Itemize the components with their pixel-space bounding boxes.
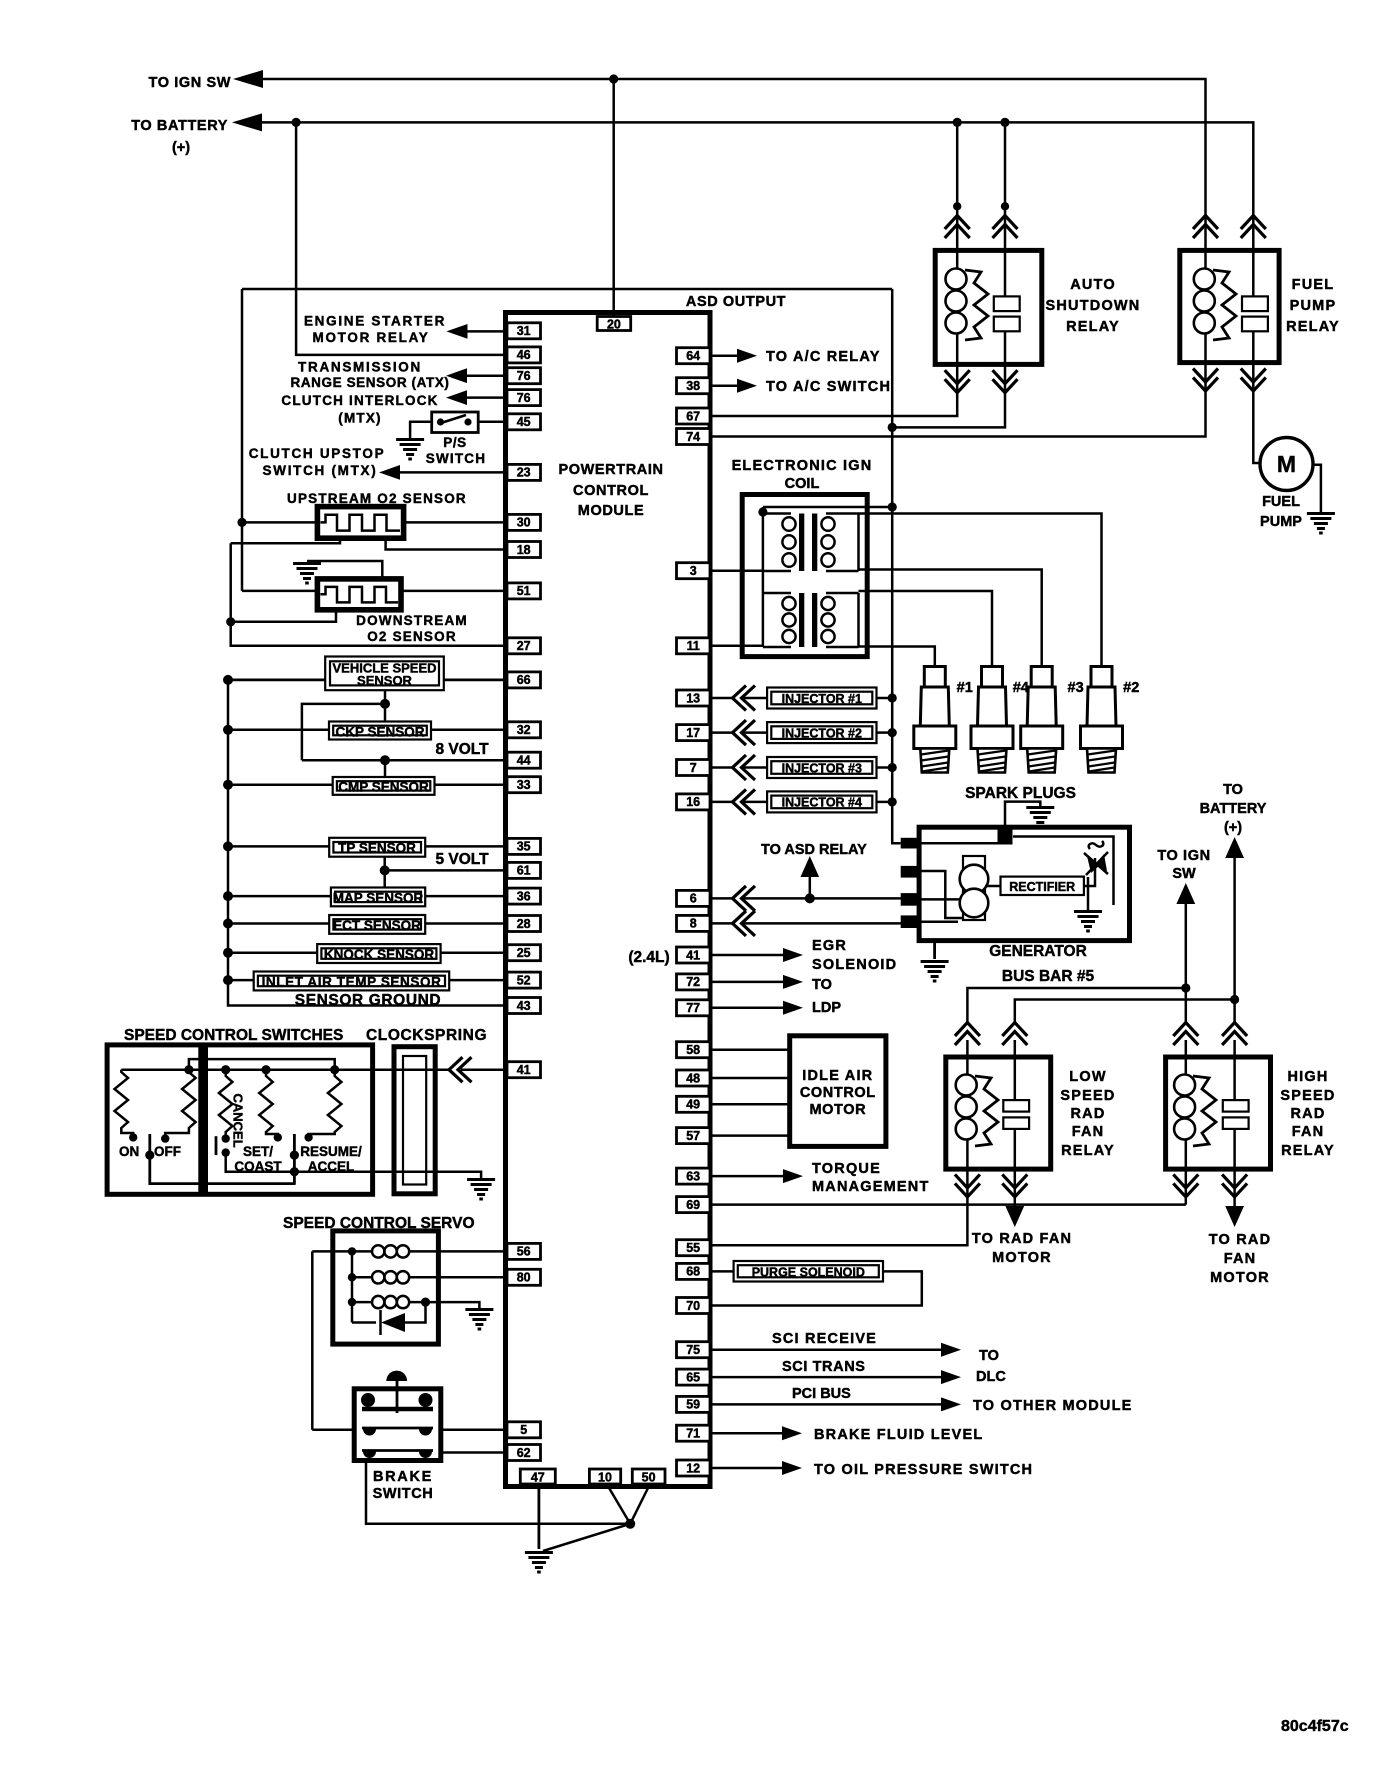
connector chevrons fuel pump relay bottom [1193, 369, 1218, 392]
svg-text:11: 11 [687, 639, 700, 653]
relay high speed coil [1174, 1057, 1195, 1169]
ground generator case [921, 962, 949, 982]
servo diode [381, 1302, 426, 1335]
node 8V CMP tap [380, 755, 390, 765]
arrowhead torque management [783, 1169, 803, 1183]
svg-text:#2: #2 [1123, 680, 1139, 696]
wire O2 return rail [231, 543, 507, 646]
generator terminal tab 1 [901, 838, 921, 849]
svg-text:45: 45 [517, 415, 531, 429]
svg-text:TRANSMISSION: TRANSMISSION [298, 360, 422, 375]
svg-text:BRAKE FLUID LEVEL: BRAKE FLUID LEVEL [814, 1427, 983, 1443]
wire upstream O2 to pin 30 [404, 521, 507, 524]
svg-text:SWITCH: SWITCH [426, 451, 486, 466]
wire injector 4 to feed [877, 801, 893, 804]
arrowhead oil pressure switch [782, 1461, 802, 1475]
wire purge solenoid to pin 70 [712, 1271, 922, 1305]
svg-text:23: 23 [517, 466, 531, 480]
relay low speed rad fan box [946, 1057, 1051, 1169]
wire pin 38 [712, 384, 737, 387]
generator terminal tab 4 [901, 915, 921, 928]
node SET top [261, 1065, 270, 1074]
arrowhead to A/C relay [737, 349, 757, 363]
speed control cancel/set/resume box [206, 1045, 373, 1194]
wire brake switch to pin 62 [441, 1451, 507, 1454]
wire upstream O2 shell to rail [231, 538, 340, 543]
wire pin 12 [712, 1467, 782, 1470]
svg-text:SENSOR: SENSOR [357, 673, 413, 688]
spark plug 4 [971, 667, 1013, 773]
svg-text:66: 66 [517, 673, 531, 687]
injector 2 box [767, 722, 876, 743]
svg-text:DLC: DLC [976, 1369, 1006, 1385]
svg-text:IDLE AIR: IDLE AIR [802, 1068, 873, 1084]
servo coil 2 [352, 1271, 414, 1283]
svg-text:51: 51 [517, 584, 531, 598]
svg-text:P/S: P/S [443, 435, 467, 450]
generator stator circle 1 [960, 865, 989, 894]
rectifier box [1001, 877, 1084, 895]
svg-text:64: 64 [686, 349, 700, 363]
generator ground tab [998, 829, 1013, 845]
svg-text:BUS BAR #5: BUS BAR #5 [1002, 968, 1095, 985]
svg-text:67: 67 [686, 409, 700, 423]
brake switch upper contacts [361, 1392, 433, 1413]
svg-text:CLUTCH UPSTOP: CLUTCH UPSTOP [249, 446, 386, 461]
wire servo feed drop to brake switch [311, 1251, 314, 1429]
wire CKP left [228, 729, 329, 732]
node rail VSS [223, 675, 233, 685]
wire MAP left [228, 895, 331, 898]
svg-text:SCI RECEIVE: SCI RECEIVE [772, 1331, 877, 1347]
svg-text:INJECTOR #2: INJECTOR #2 [782, 726, 862, 740]
svg-text:RANGE SENSOR (ATX): RANGE SENSOR (ATX) [290, 375, 449, 390]
svg-text:SENSOR GROUND: SENSOR GROUND [295, 992, 441, 1009]
contact ON [129, 1133, 137, 1141]
svg-text:MANAGEMENT: MANAGEMENT [812, 1179, 930, 1195]
node ASD contact output [888, 423, 897, 432]
svg-text:63: 63 [686, 1169, 700, 1183]
node rail IAT [223, 975, 233, 985]
svg-text:17: 17 [686, 726, 700, 740]
speed control on/off box [107, 1045, 201, 1194]
generator terminal tab 2 [901, 866, 921, 878]
wire CKP to pin 32 [431, 729, 507, 732]
wire VSS to CKP stub [384, 690, 387, 721]
spark plug 3 [1021, 667, 1063, 773]
svg-text:FAN: FAN [1072, 1124, 1105, 1140]
svg-text:30: 30 [517, 516, 531, 530]
svg-text:CONTROL: CONTROL [800, 1085, 876, 1101]
svg-text:(2.4L): (2.4L) [628, 949, 669, 966]
node ASD coil top [953, 118, 962, 127]
wire fuel pump contact to motor [1253, 363, 1261, 463]
wire coil primary feed [763, 506, 892, 509]
contact CANCEL lower [222, 1148, 230, 1156]
relay low speed coil [956, 1057, 977, 1169]
node bus bar battery [1230, 995, 1239, 1004]
svg-text:SW: SW [1172, 866, 1196, 882]
electronic ign coil box [742, 495, 867, 657]
svg-text:6: 6 [690, 892, 697, 906]
svg-text:COAST: COAST [234, 1159, 282, 1174]
P/S switch lever [441, 415, 466, 423]
contact CANCEL upper [222, 1134, 230, 1142]
wire ASD output top run [242, 288, 892, 291]
generator inner wire tab3 [920, 898, 963, 901]
svg-text:SPARK PLUGS: SPARK PLUGS [965, 785, 1076, 802]
wire pin 69 to high coil leg [712, 1169, 1186, 1205]
speed control servo box [333, 1231, 439, 1344]
arrowhead ign right (up) [1176, 883, 1195, 904]
svg-text:FUEL: FUEL [1262, 494, 1300, 510]
connector chevron injector 3 [733, 755, 756, 780]
generator stator frame [963, 856, 985, 920]
svg-text:SWITCH (MTX): SWITCH (MTX) [263, 463, 378, 478]
svg-text:TO OIL PRESSURE SWITCH: TO OIL PRESSURE SWITCH [814, 1462, 1033, 1478]
relay ASD box [935, 250, 1042, 364]
wire bus bar 2 [1015, 1000, 1235, 1023]
svg-text:(+): (+) [1224, 820, 1242, 836]
wire bridge hop [189, 1059, 335, 1070]
svg-text:KNOCK SENSOR: KNOCK SENSOR [324, 947, 435, 962]
svg-text:MOTOR: MOTOR [1210, 1270, 1270, 1286]
wire servo coil3 to ground [420, 1302, 479, 1308]
arrowhead to battery [232, 113, 262, 131]
node rail KNOCK [223, 948, 233, 958]
wire chevron to pin 41 [461, 1068, 507, 1071]
transformer 2 primary winding [763, 593, 796, 647]
transformer 2 core [799, 593, 804, 647]
svg-text:TP SENSOR: TP SENSOR [338, 841, 416, 856]
motor fuel pump circle [1260, 438, 1313, 491]
switch lever SET/RESUME [293, 1134, 296, 1184]
svg-text:TO A/C RELAY: TO A/C RELAY [766, 349, 881, 365]
connector chevrons ASD relay bottom [945, 370, 970, 393]
wire downstream O2 to pin 51 [401, 590, 507, 593]
arrowhead SCI trans [941, 1370, 961, 1384]
svg-text:TO RAD: TO RAD [1209, 1232, 1272, 1248]
svg-text:TO: TO [812, 977, 832, 993]
wire downstream ground bracket [307, 561, 382, 579]
svg-text:75: 75 [686, 1343, 700, 1357]
wire ECT left [228, 922, 329, 925]
svg-text:77: 77 [686, 1001, 700, 1015]
wire ASD output main vertical [892, 289, 901, 843]
arrowhead brake fluid level [782, 1426, 802, 1440]
svg-text:TO RAD FAN: TO RAD FAN [972, 1231, 1072, 1247]
svg-text:CANCEL: CANCEL [231, 1094, 246, 1148]
relay high speed rad fan box [1166, 1057, 1271, 1169]
wire pin 58 [712, 1048, 790, 1051]
CKP sensor box [329, 722, 431, 740]
svg-text:ECT SENSOR: ECT SENSOR [333, 918, 421, 933]
svg-text:62: 62 [517, 1446, 531, 1460]
node battery/pin46 junction [292, 118, 301, 127]
wire servo common bus [352, 1251, 376, 1322]
svg-text:RECTIFIER: RECTIFIER [1009, 880, 1075, 894]
svg-text:8 VOLT: 8 VOLT [435, 741, 489, 758]
node rail TP [223, 841, 233, 851]
wire injector 2 to feed [877, 731, 893, 734]
svg-text:MODULE: MODULE [578, 503, 644, 519]
contact bar cancel [215, 1136, 218, 1155]
wire pin 17 [712, 731, 767, 734]
ground fuel pump [1307, 514, 1335, 534]
resistor SET [259, 1070, 278, 1138]
wire battery bus [259, 122, 1253, 252]
purge solenoid box [734, 1261, 883, 1282]
generator inner loop wire [985, 837, 1114, 906]
wire pin 6 to generator [712, 897, 901, 900]
resistor RESUME [309, 1070, 342, 1138]
svg-text:41: 41 [517, 1063, 531, 1077]
brake switch plunger [386, 1371, 407, 1392]
wire pin 71 [712, 1432, 782, 1435]
wire ASD relay stem [809, 875, 812, 898]
wire high relay legs top [1186, 1040, 1235, 1057]
wire ECT to pin 28 [425, 922, 507, 925]
svg-text:TO OTHER MODULE: TO OTHER MODULE [973, 1398, 1133, 1414]
generator box [919, 827, 1129, 940]
connector chevrons ASD relay top [945, 216, 970, 239]
connector chevrons high speed relay bottom [1173, 1174, 1198, 1197]
idle air control motor box [790, 1036, 886, 1147]
svg-text:TORQUE: TORQUE [812, 1161, 881, 1177]
svg-text:AUTO: AUTO [1070, 277, 1116, 293]
wire VSS to pin 66 [444, 679, 507, 682]
svg-text:FAN: FAN [1292, 1124, 1325, 1140]
svg-text:13: 13 [686, 691, 700, 705]
switch lever ON/OFF [150, 1134, 296, 1184]
arrowhead to ign sw [233, 70, 263, 88]
wire pin 7 [712, 766, 767, 769]
arrowhead to A/C switch [737, 379, 757, 393]
wire bus bar 1 [967, 988, 1185, 1022]
node injector 1 [888, 693, 897, 702]
arrowhead pin 31 [446, 324, 467, 339]
svg-text:COIL: COIL [785, 476, 820, 492]
wire upstream O2 left [242, 521, 317, 524]
contact OFF [161, 1134, 169, 1142]
node ASD contact top [1000, 118, 1009, 127]
svg-text:ENGINE STARTER: ENGINE STARTER [304, 314, 446, 329]
wire P/S switch to pin 45 [478, 421, 507, 424]
wire ASD output left drop to O2 heaters [241, 289, 244, 591]
svg-text:#1: #1 [957, 680, 973, 696]
svg-text:DOWNSTREAM: DOWNSTREAM [356, 613, 468, 628]
wire ASD contact to feed node [892, 364, 1005, 427]
svg-text:HIGH: HIGH [1287, 1069, 1328, 1085]
node connector dot ASD coil [953, 202, 961, 210]
svg-text:SPEED: SPEED [1060, 1088, 1115, 1104]
arrowhead pin 76a [446, 368, 467, 383]
svg-text:5: 5 [520, 1423, 527, 1437]
svg-text:TO ASD RELAY: TO ASD RELAY [761, 842, 867, 858]
svg-text:SPEED CONTROL SWITCHES: SPEED CONTROL SWITCHES [124, 1027, 343, 1044]
wire battery right stem [1233, 856, 1236, 1000]
wire injector 1 to feed [877, 697, 893, 700]
svg-text:36: 36 [517, 889, 531, 903]
relay fuel pump resistor [1213, 270, 1236, 340]
node ign/pin20 junction [609, 74, 618, 83]
ground generator inner [1074, 912, 1102, 932]
TP sensor box [329, 838, 425, 857]
arrowhead to ASD relay (up) [801, 856, 820, 877]
wire fuel pump to ground [1313, 465, 1321, 512]
node PCM ground junction [625, 1519, 635, 1529]
node 8V VSS tap [380, 699, 390, 709]
svg-text:55: 55 [686, 1241, 700, 1255]
svg-text:GENERATOR: GENERATOR [989, 943, 1087, 960]
svg-text:FAN: FAN [1224, 1251, 1257, 1267]
svg-text:52: 52 [517, 973, 531, 987]
svg-text:47: 47 [531, 1471, 545, 1485]
wire rectifier to ground [1087, 877, 1090, 910]
svg-text:56: 56 [517, 1245, 531, 1259]
wire generator case ground [933, 941, 936, 959]
wire fuel pump coil to pin 74 [712, 363, 1206, 437]
wire junction to ground diagonal [543, 1524, 630, 1551]
resistor CANCEL [219, 1070, 233, 1139]
clockspring box [394, 1047, 435, 1194]
svg-text:18: 18 [517, 543, 531, 557]
brake switch middle contact row [362, 1428, 433, 1436]
wire 5 volt pin 61 [385, 869, 507, 872]
wire TP to MAP stub [383, 857, 386, 888]
wire pin 11 to primary 2 [712, 645, 763, 648]
ECT sensor box [329, 915, 425, 934]
arrowhead to LDP 2 [783, 1001, 803, 1015]
node coil feed junction [888, 502, 897, 511]
svg-text:RELAY: RELAY [1061, 1143, 1115, 1159]
servo coil 1 [352, 1245, 414, 1257]
node lever pivot ON/OFF [145, 1151, 154, 1160]
svg-text:(MTX): (MTX) [338, 411, 382, 426]
wire tap to CMP [384, 760, 387, 777]
svg-text:80: 80 [517, 1271, 531, 1285]
svg-text:ON: ON [119, 1144, 139, 1159]
relay ASD resistor [965, 270, 988, 340]
svg-text:PURGE SOLENOID: PURGE SOLENOID [752, 1265, 865, 1279]
wire ASD coil to pin 67 [712, 364, 957, 416]
wire pin 20 vertical [612, 79, 615, 317]
relay fuel pump box [1180, 250, 1279, 362]
wire pin 31 [467, 330, 507, 333]
svg-text:INJECTOR #4: INJECTOR #4 [782, 796, 862, 810]
PCM right pin boxes [677, 348, 711, 364]
wire pin 16 [712, 801, 767, 804]
svg-text:TO A/C SWITCH: TO A/C SWITCH [766, 379, 891, 395]
contact RESUME [304, 1133, 312, 1141]
vehicle speed sensor box [325, 657, 444, 691]
wire P/S switch to ground [410, 422, 432, 438]
upstream O2 waveform [321, 515, 401, 531]
downstream O2 waveform [321, 587, 399, 603]
P/S switch box [432, 412, 479, 433]
svg-text:71: 71 [686, 1427, 700, 1441]
connector chevrons low speed relay bottom [955, 1174, 980, 1197]
svg-text:12: 12 [686, 1461, 700, 1475]
node lever pivot SET/RESUME [290, 1151, 299, 1160]
wire ign bus [260, 79, 1206, 252]
upstream O2 sensor symbol [317, 507, 403, 539]
connector chevrons high speed relay top [1173, 1023, 1198, 1046]
svg-text:58: 58 [686, 1043, 700, 1057]
wire KNOCK left [228, 951, 317, 954]
svg-text:TO: TO [979, 1348, 999, 1364]
relay high speed contact [1223, 1057, 1249, 1169]
node servo coil1 left [348, 1247, 356, 1255]
PCM bottom pin boxes [520, 1469, 555, 1484]
svg-text:INJECTOR #1: INJECTOR #1 [782, 692, 862, 706]
relay high speed resistor [1193, 1076, 1216, 1146]
wire pin 23 [399, 471, 507, 474]
wire pin 64 [712, 354, 737, 357]
svg-text:38: 38 [686, 379, 700, 393]
transformer 1 secondary winding [821, 514, 858, 572]
svg-text:69: 69 [686, 1198, 700, 1212]
generator terminal tab 3 [901, 893, 921, 906]
svg-text:57: 57 [686, 1129, 700, 1143]
wire generator top ground [1005, 802, 1040, 829]
node injector 2 [888, 728, 897, 737]
wire pin 57 [712, 1134, 790, 1137]
wire pin 77 [712, 1007, 783, 1010]
svg-text:ACCEL: ACCEL [308, 1159, 355, 1174]
svg-text:M: M [1277, 451, 1296, 477]
svg-text:SHUTDOWN: SHUTDOWN [1046, 298, 1141, 314]
relay ASD coil [946, 250, 967, 364]
relay fuel pump contact [1242, 250, 1268, 362]
wire pin 59 [712, 1403, 941, 1406]
wire brake switch feed [312, 1429, 354, 1432]
node injector 4 [888, 797, 897, 806]
generator inner wire tab2 [920, 871, 963, 918]
connector chevron injector 1 [733, 686, 756, 711]
transformer 2 secondary winding [821, 593, 858, 647]
wire brake switch to pin 5 [441, 1429, 507, 1432]
arrowhead to LDP 1 [783, 975, 803, 989]
node bus bar ign [1181, 983, 1190, 992]
svg-text:65: 65 [686, 1370, 700, 1384]
wire secondary to spark plug 4 [859, 591, 993, 667]
node connector dot ASD contact [1001, 202, 1009, 210]
svg-text:74: 74 [686, 430, 700, 444]
svg-text:SET/: SET/ [243, 1144, 273, 1159]
svg-text:43: 43 [517, 999, 531, 1013]
wire TP left [228, 845, 329, 848]
wire KNOCK to pin 25 [441, 951, 507, 954]
svg-text:ELECTRONIC IGN: ELECTRONIC IGN [732, 458, 873, 474]
svg-text:LDP: LDP [812, 1000, 841, 1016]
svg-text:EGR: EGR [812, 938, 847, 954]
wire low contact to rad fan motor [1014, 1169, 1017, 1208]
wire pin 63 [712, 1175, 783, 1178]
wire pin 48 [712, 1077, 790, 1080]
wire pin 47 to ground [538, 1484, 541, 1549]
wire pin 10 diagonal [607, 1484, 631, 1524]
svg-text:33: 33 [517, 778, 531, 792]
svg-text:FUEL: FUEL [1292, 277, 1335, 293]
brake switch lower contact row [362, 1451, 433, 1459]
node rail CMP [223, 780, 233, 790]
arrowhead to rad fan motor high (down) [1225, 1206, 1244, 1227]
wire switch top rail to pin 41 [121, 1068, 451, 1071]
node RESUME top [330, 1065, 339, 1074]
wire IAT to pin 52 [449, 979, 507, 982]
svg-text:MOTOR: MOTOR [992, 1250, 1052, 1266]
